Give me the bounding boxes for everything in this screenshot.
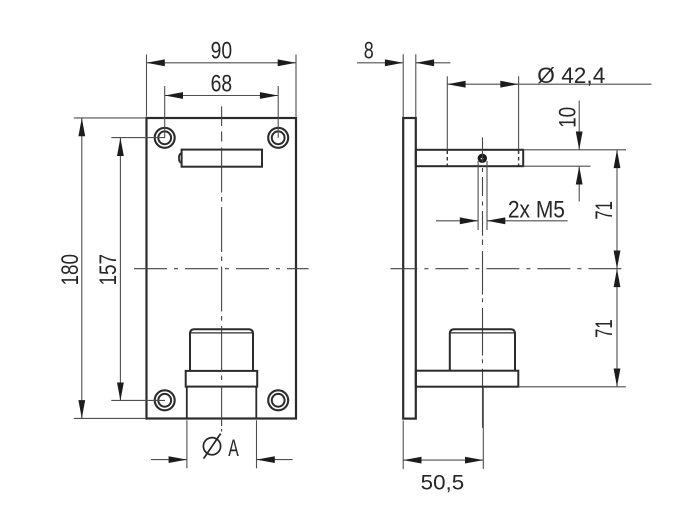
dimension 50.5 extension lines <box>403 388 483 469</box>
dimension 71 lower label <box>591 319 618 338</box>
dimension 68 line <box>165 92 279 99</box>
front view slot <box>179 150 262 167</box>
dimension 10 line <box>576 101 583 202</box>
dimension 71 upper line <box>614 150 621 269</box>
front view collar <box>186 371 258 387</box>
front view tube left edge <box>186 387 188 419</box>
dimension 8 extension lines <box>403 54 416 117</box>
dimension 71 lower line <box>614 269 621 387</box>
dimension 71 lower extension line <box>518 386 626 388</box>
svg-text:Ø 42,4: Ø 42,4 <box>537 63 605 88</box>
dimension diameter-A extension lines <box>187 420 257 468</box>
svg-text:8: 8 <box>364 38 374 65</box>
dimension 50.5 label <box>421 471 465 494</box>
front view hole top-right <box>268 128 288 148</box>
front view plate outline <box>147 118 297 419</box>
dimension 50.5 line <box>403 457 483 464</box>
side view vertical centerline <box>482 137 484 427</box>
dimension 157 line <box>117 138 124 401</box>
front view vertical centerline <box>221 106 223 431</box>
svg-text:71: 71 <box>591 319 618 338</box>
dimension 180 label <box>57 254 84 286</box>
dimension 42.4 label <box>537 63 605 88</box>
svg-text:2x M5: 2x M5 <box>508 197 565 224</box>
dimension 68 extension lines <box>165 86 279 138</box>
side view hidden tube line right <box>518 151 520 166</box>
dimension 180 line <box>78 118 85 418</box>
side view plate bar <box>403 118 416 419</box>
dimension 2xM5 leader line <box>436 217 568 224</box>
front view hole bottom-left <box>155 390 175 410</box>
side view lower flange <box>416 371 519 387</box>
dimension 8 label <box>364 38 374 65</box>
front view tube right edge <box>255 387 257 419</box>
dimension 90 extension lines <box>147 55 297 117</box>
dimension 10 label <box>555 107 582 128</box>
dimension 68 label <box>211 71 233 98</box>
dimension 180 extension lines <box>74 118 146 419</box>
front view boss <box>190 329 253 371</box>
svg-text:10: 10 <box>555 107 582 128</box>
dimension 90 label <box>211 38 233 65</box>
svg-text:71: 71 <box>591 201 618 220</box>
svg-text:50,5: 50,5 <box>421 471 465 494</box>
dimension 157 label <box>95 254 122 286</box>
dimension diameter-A symbol <box>203 434 220 459</box>
dimension 157 extension lines <box>111 138 165 401</box>
side view M5 hole dot <box>478 154 487 163</box>
dimension 2xM5 label <box>508 197 565 224</box>
svg-text:68: 68 <box>211 71 233 98</box>
dimension 90 line <box>147 59 297 66</box>
svg-text:157: 157 <box>95 254 122 286</box>
front view horizontal centerline <box>134 268 309 270</box>
dimension 42.4 line <box>447 81 651 88</box>
dimension 8 line <box>357 59 450 66</box>
dimension 71 upper label <box>591 201 618 220</box>
side view horizontal centerline <box>390 268 626 270</box>
side view M5 hole lines <box>478 161 487 230</box>
front view hole top-left <box>155 128 175 148</box>
side view hidden tube line left <box>446 151 448 166</box>
dimension diameter-A label <box>228 435 239 462</box>
dimension diameter-A line <box>151 456 293 463</box>
side view lower boss <box>450 329 515 371</box>
side view top flange <box>416 150 523 166</box>
front view hole bottom-right <box>268 390 288 410</box>
dimension 42.4 extension lines <box>447 76 518 149</box>
svg-text:90: 90 <box>211 38 233 65</box>
svg-text:A: A <box>228 435 239 462</box>
dimension 10 extension lines <box>523 150 626 166</box>
svg-text:180: 180 <box>57 254 84 286</box>
